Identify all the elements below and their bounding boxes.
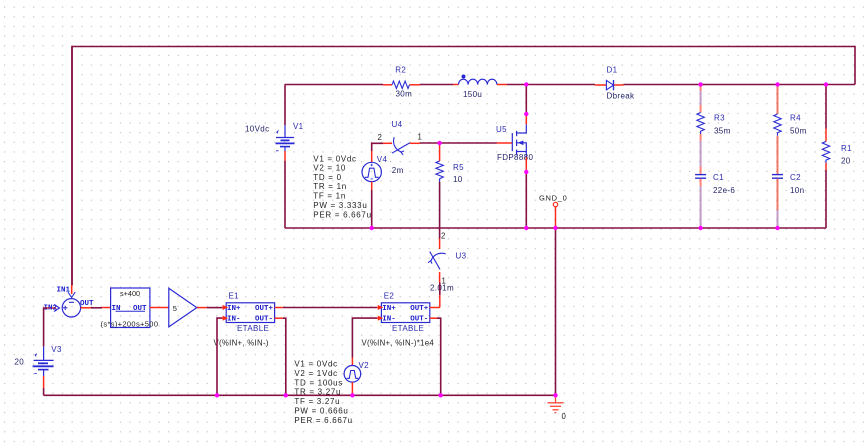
svg-text:E2: E2 — [384, 292, 395, 301]
svg-text:2: 2 — [441, 232, 445, 241]
wire: E2 OUT+ up to U3 — [430, 307, 440, 309]
wire: top rail segments — [285, 84, 855, 86]
svg-text:TR = 1n: TR = 1n — [313, 182, 347, 191]
ground 0 symbol — [548, 395, 567, 421]
voltage source V3 (battery) — [15, 345, 62, 395]
svg-text:V(%IN+, %IN-)*1e4: V(%IN+, %IN-)*1e4 — [362, 339, 435, 348]
svg-text:PW = 3.333u: PW = 3.333u — [313, 201, 367, 210]
wire: ground tie vertical — [555, 228, 557, 395]
svg-text:IN1: IN1 — [57, 287, 71, 295]
wire: U4 pin2 to V4 top — [372, 143, 383, 151]
wire: C1 to rail — [700, 179, 702, 228]
svg-text:D1: D1 — [607, 66, 618, 75]
wire: C2 to rail — [777, 179, 779, 228]
svg-text:TD = 0: TD = 0 — [313, 173, 341, 182]
svg-text:R1: R1 — [841, 144, 852, 153]
wire: left input drop to summer — [71, 47, 73, 286]
resistor R3 — [697, 85, 731, 136]
svg-text:OUT-: OUT- — [255, 316, 273, 324]
svg-text:TF = 3.27u: TF = 3.27u — [294, 397, 340, 406]
svg-text:C2: C2 — [790, 173, 801, 182]
wire: E1 OUT- to bottom rail — [275, 318, 286, 395]
svg-text:E1: E1 — [229, 292, 240, 301]
svg-text:OUT-: OUT- — [410, 316, 428, 324]
svg-text:20: 20 — [15, 357, 25, 366]
svg-text:(s*s)+200s+500: (s*s)+200s+500 — [101, 319, 159, 328]
svg-text:R4: R4 — [790, 114, 801, 123]
svg-text:U4: U4 — [392, 120, 403, 129]
V4 param text block — [313, 155, 371, 220]
svg-text:2m: 2m — [392, 166, 404, 175]
svg-text:U5: U5 — [496, 125, 507, 134]
svg-text:PER = 6.667u: PER = 6.667u — [294, 416, 352, 425]
resistor R5 — [436, 143, 464, 184]
svg-text:R2: R2 — [395, 66, 406, 75]
wire: V1 branch vertical — [284, 85, 286, 229]
V2 param text block — [294, 360, 352, 425]
svg-text:35m: 35m — [714, 127, 731, 136]
ETABLE E2 — [362, 292, 435, 348]
svg-text:V2 = 10: V2 = 10 — [313, 163, 346, 172]
wire: R4 to C2 — [777, 136, 779, 174]
svg-text:IN-: IN- — [227, 316, 241, 324]
wire: E2 IN- to V2 — [352, 318, 381, 366]
svg-text:GND_0: GND_0 — [539, 194, 568, 203]
resistor R2 — [383, 66, 420, 99]
wire: source drop — [525, 157, 527, 228]
svg-text:OUT+: OUT+ — [410, 305, 429, 313]
svg-text:10n: 10n — [790, 186, 804, 195]
svg-text:FDP8880: FDP8880 — [497, 153, 533, 162]
wire: U3 pin1 down to E2 OUT+ — [439, 283, 441, 308]
svg-text:10: 10 — [453, 175, 463, 184]
svg-text:0: 0 — [562, 412, 567, 421]
svg-text:ETABLE: ETABLE — [392, 324, 424, 333]
capacitor C1 — [695, 173, 735, 195]
svg-text:TF = 1n: TF = 1n — [313, 192, 346, 201]
svg-text:OUT: OUT — [80, 300, 94, 308]
node IN1 arrow — [57, 285, 76, 298]
svg-text:OUT+: OUT+ — [255, 305, 274, 313]
svg-text:150u: 150u — [463, 90, 482, 99]
svg-text:TD = 100us: TD = 100us — [294, 378, 343, 387]
svg-text:1: 1 — [418, 133, 422, 142]
svg-text:2.01m: 2.01m — [430, 284, 454, 293]
wire: TF to gain — [150, 307, 169, 309]
gain block 5 — [169, 288, 197, 327]
wire: bottom power rail — [285, 227, 826, 229]
inductor L (150u) — [453, 75, 507, 100]
wire: summer out to TF block — [81, 307, 111, 309]
svg-text:C1: C1 — [713, 173, 724, 182]
pulse source V4 — [362, 151, 387, 228]
svg-text:20: 20 — [841, 157, 851, 166]
svg-text:Dbreak: Dbreak — [607, 91, 636, 100]
mosfet U5 FDP8880 — [512, 124, 526, 157]
svg-text:10Vdc: 10Vdc — [245, 125, 269, 134]
svg-text:5: 5 — [173, 304, 177, 313]
switch U4 — [378, 120, 422, 175]
wire: outer feedback loop top — [72, 47, 855, 286]
svg-text:IN+: IN+ — [382, 305, 396, 313]
mosfet U5 labels — [496, 125, 533, 162]
wire: V3 to IN2 — [44, 308, 47, 346]
pulse source V2 — [344, 361, 369, 395]
wire: E1 OUT+ to E2 IN+ — [275, 307, 382, 309]
diode D1 — [595, 66, 635, 101]
wire: E2 OUT- to bottom rail — [430, 318, 441, 395]
svg-text:V2 = 1Vdc: V2 = 1Vdc — [294, 369, 337, 378]
svg-text:U3: U3 — [456, 252, 467, 261]
svg-text:V1 = 0Vdc: V1 = 0Vdc — [294, 360, 337, 369]
svg-text:V3: V3 — [51, 345, 62, 354]
wire: drain riser — [525, 85, 527, 125]
svg-text:PW = 0.666u: PW = 0.666u — [294, 407, 348, 416]
wire: E1 IN- to bottom rail — [217, 318, 226, 395]
svg-text:50m: 50m — [790, 127, 807, 136]
svg-text:V(%IN+, %IN-): V(%IN+, %IN-) — [214, 339, 269, 348]
svg-text:V2: V2 — [359, 361, 370, 370]
transfer function block (s+400)/((s*s)+200s+500) — [101, 288, 159, 328]
svg-text:2: 2 — [378, 133, 382, 142]
svg-text:R3: R3 — [714, 114, 725, 123]
svg-text:V1: V1 — [293, 122, 304, 131]
capacitor C2 — [772, 173, 804, 195]
resistor R1 — [822, 85, 852, 229]
wire: gain to E1 — [197, 307, 226, 309]
svg-text:IN-: IN- — [382, 316, 396, 324]
summing junction — [62, 299, 94, 317]
wire: R3 to C1 — [700, 134, 702, 174]
svg-text:s+400: s+400 — [120, 289, 140, 298]
wire: bottom control rail — [44, 394, 556, 396]
svg-text:R5: R5 — [453, 163, 464, 172]
switch U3 (vertical) — [428, 232, 467, 293]
svg-text:V1 = 0Vdc: V1 = 0Vdc — [313, 155, 356, 164]
svg-text:ETABLE: ETABLE — [237, 324, 269, 333]
svg-text:IN+: IN+ — [227, 305, 241, 313]
svg-text:PER = 6.667u: PER = 6.667u — [313, 210, 371, 219]
svg-text:30m: 30m — [396, 90, 413, 99]
node GND_0 stub — [539, 194, 568, 229]
resistor R4 — [774, 85, 807, 136]
voltage source V1 (battery) — [245, 122, 304, 161]
node IN2 arrow — [44, 305, 60, 313]
wire: R5 bottom down across rail to U3 — [439, 182, 441, 239]
wire: U4 pin1 to gate node — [420, 142, 497, 144]
svg-text:22e-6: 22e-6 — [713, 186, 735, 195]
mosfet U5 gate stub — [497, 142, 513, 144]
ETABLE E1 — [214, 292, 275, 348]
svg-text:V4: V4 — [377, 155, 388, 164]
